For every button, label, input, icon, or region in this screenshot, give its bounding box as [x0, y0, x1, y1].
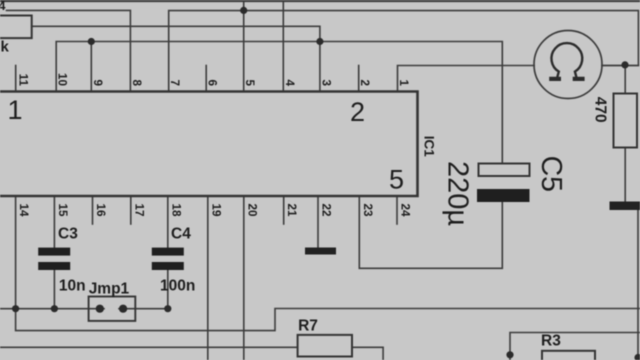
pin number 1	[397, 79, 410, 86]
pin number 9	[91, 79, 104, 86]
wire top rail full width	[0, 0, 640, 2]
svg-text:2: 2	[350, 97, 365, 127]
wire pin 20 long	[243, 196, 245, 360]
svg-text:11: 11	[16, 74, 29, 87]
svg-text:3: 3	[319, 79, 332, 86]
pin number 18	[169, 204, 182, 218]
pin number 3	[319, 79, 332, 86]
svg-text:8: 8	[130, 79, 143, 86]
svg-text:18: 18	[169, 204, 182, 218]
wire pin 24 stub	[396, 196, 398, 224]
resistor R3 box	[542, 351, 595, 360]
capacitor C5 minus plate	[477, 189, 530, 202]
svg-text:21: 21	[285, 204, 298, 218]
svg-text:1: 1	[8, 95, 23, 125]
svg-text:20: 20	[245, 204, 258, 218]
svg-text:5: 5	[243, 79, 256, 86]
gate label 2	[350, 97, 365, 127]
wire pin 5 vertical	[243, 0, 245, 92]
jumper Jmp1 pads	[96, 305, 127, 313]
svg-text:5: 5	[389, 165, 404, 195]
wire pin 4 vertical	[282, 0, 284, 92]
wire C3 to junction	[53, 270, 55, 309]
jumper Jmp1 box	[89, 297, 136, 321]
resistor k top left	[0, 16, 32, 39]
wire bypass under jumper	[16, 309, 640, 331]
label R7	[298, 317, 318, 334]
wire pin 22 to ground	[317, 196, 319, 248]
pin number 24	[399, 204, 412, 218]
junction node pin5	[240, 7, 247, 14]
pin number 19	[209, 204, 222, 218]
resistor R7 box	[298, 335, 352, 357]
svg-text:15: 15	[56, 204, 69, 218]
junction node C4	[164, 305, 171, 312]
wire pin 11 stub	[15, 66, 17, 92]
pin number 16	[94, 204, 107, 218]
junction node pin14	[12, 305, 19, 312]
pin number 2	[358, 79, 371, 86]
svg-text:Jmp1: Jmp1	[89, 281, 130, 298]
wire node to resistor 470	[624, 66, 626, 94]
pin number 21	[285, 204, 298, 218]
wire jumper net right	[119, 308, 168, 310]
svg-text:22: 22	[320, 204, 333, 218]
svg-text:23: 23	[361, 204, 374, 218]
wire R7 output	[352, 347, 383, 360]
svg-text:IC1: IC1	[421, 136, 436, 158]
pin number 15	[56, 204, 69, 218]
wire pin 1 to speaker	[398, 66, 535, 92]
pin number 11	[16, 74, 29, 87]
wire pin 3 stub	[319, 42, 321, 92]
speaker LS1 circle	[534, 31, 602, 99]
pin number 10	[56, 73, 69, 87]
label 10n	[59, 278, 86, 295]
capacitor C4 plates	[152, 248, 184, 270]
capacitor C3 plates	[38, 248, 70, 270]
svg-text:6: 6	[206, 79, 219, 86]
svg-text:19: 19	[209, 204, 222, 218]
junction node speaker 470	[621, 61, 628, 68]
svg-text:R3: R3	[541, 333, 561, 350]
wire pin10 to C5 top	[56, 42, 502, 164]
wire pin 18 to C4	[167, 196, 169, 248]
IC IC1 outline	[0, 92, 418, 197]
wire right edge down	[637, 210, 639, 360]
pin number 5	[243, 79, 256, 86]
junction node bottom right	[634, 354, 640, 360]
wire pin 14 long	[15, 196, 17, 309]
label 100n	[160, 278, 195, 295]
svg-text:24: 24	[399, 204, 412, 218]
ground bar pin22	[305, 248, 336, 255]
pin number 7	[168, 79, 181, 86]
svg-text:R7: R7	[298, 317, 318, 334]
wire R7 feed	[0, 346, 298, 348]
label 4 top left	[0, 0, 6, 13]
svg-text:100n: 100n	[160, 278, 195, 295]
wire jumper net left	[0, 308, 104, 310]
wire from label 4 to pin 8	[7, 10, 131, 91]
svg-text:7: 7	[168, 79, 181, 86]
junction node pin3	[316, 38, 323, 45]
wire C4 to junction	[167, 270, 169, 309]
label R3	[541, 333, 561, 350]
junction node C3	[51, 305, 58, 312]
svg-text:C3: C3	[58, 226, 78, 243]
pin number 6	[206, 79, 219, 86]
gate label 1	[8, 95, 23, 125]
label C5	[535, 156, 567, 192]
svg-text:10n: 10n	[59, 278, 86, 295]
svg-text:2: 2	[358, 79, 371, 86]
label IC1	[421, 136, 436, 158]
resistor 470 box	[614, 94, 638, 148]
wire pin 2 stub	[358, 66, 360, 92]
wire resistor k to pin3 node	[32, 26, 320, 41]
wire pin 19 long	[207, 196, 209, 360]
pin number 23	[361, 204, 374, 218]
pin number 20	[245, 204, 258, 218]
svg-text:C5: C5	[535, 156, 567, 192]
speaker omega symbol	[549, 43, 584, 79]
svg-text:4: 4	[283, 79, 296, 86]
wire C5 bottom to pin 23	[359, 196, 502, 268]
wire pin 9 stub	[90, 42, 92, 92]
wire speaker to node	[602, 65, 639, 67]
label C4	[171, 226, 191, 243]
label k resistor value	[1, 39, 10, 56]
wire pin 16 stub	[92, 196, 94, 224]
pin number 17	[132, 204, 145, 217]
label 470	[592, 97, 609, 123]
label Jmp1	[89, 281, 130, 298]
svg-text:4: 4	[0, 0, 6, 13]
wire pin 6 stub	[205, 66, 207, 92]
pin number 22	[320, 204, 333, 218]
pin number 8	[130, 79, 143, 86]
svg-text:10: 10	[56, 73, 69, 87]
svg-text:470: 470	[592, 97, 609, 123]
label C3	[58, 226, 78, 243]
svg-text:220µ: 220µ	[442, 161, 474, 226]
junction node pin9	[88, 38, 95, 45]
svg-text:k: k	[1, 39, 10, 56]
capacitor C5 plus plate	[479, 164, 530, 177]
wire 470 to ground bar	[624, 148, 626, 202]
pin number 4	[283, 79, 296, 86]
gate label 5	[389, 165, 404, 195]
ground bar right	[610, 202, 640, 211]
label 220u	[442, 161, 474, 226]
wire pin 15 to C3	[53, 196, 55, 248]
wire pin 7 to top right corner	[169, 11, 639, 92]
wire pin 17 stub	[130, 196, 132, 224]
svg-text:16: 16	[94, 204, 107, 218]
svg-text:1: 1	[397, 79, 410, 86]
wire R3 branch	[510, 333, 640, 360]
pin number 14	[17, 204, 30, 218]
svg-text:C4: C4	[171, 226, 191, 243]
wire pin 21 stub	[283, 196, 285, 224]
svg-text:14: 14	[17, 204, 30, 218]
svg-text:9: 9	[91, 79, 104, 86]
junction node R3	[506, 351, 513, 358]
svg-text:17: 17	[132, 204, 145, 217]
